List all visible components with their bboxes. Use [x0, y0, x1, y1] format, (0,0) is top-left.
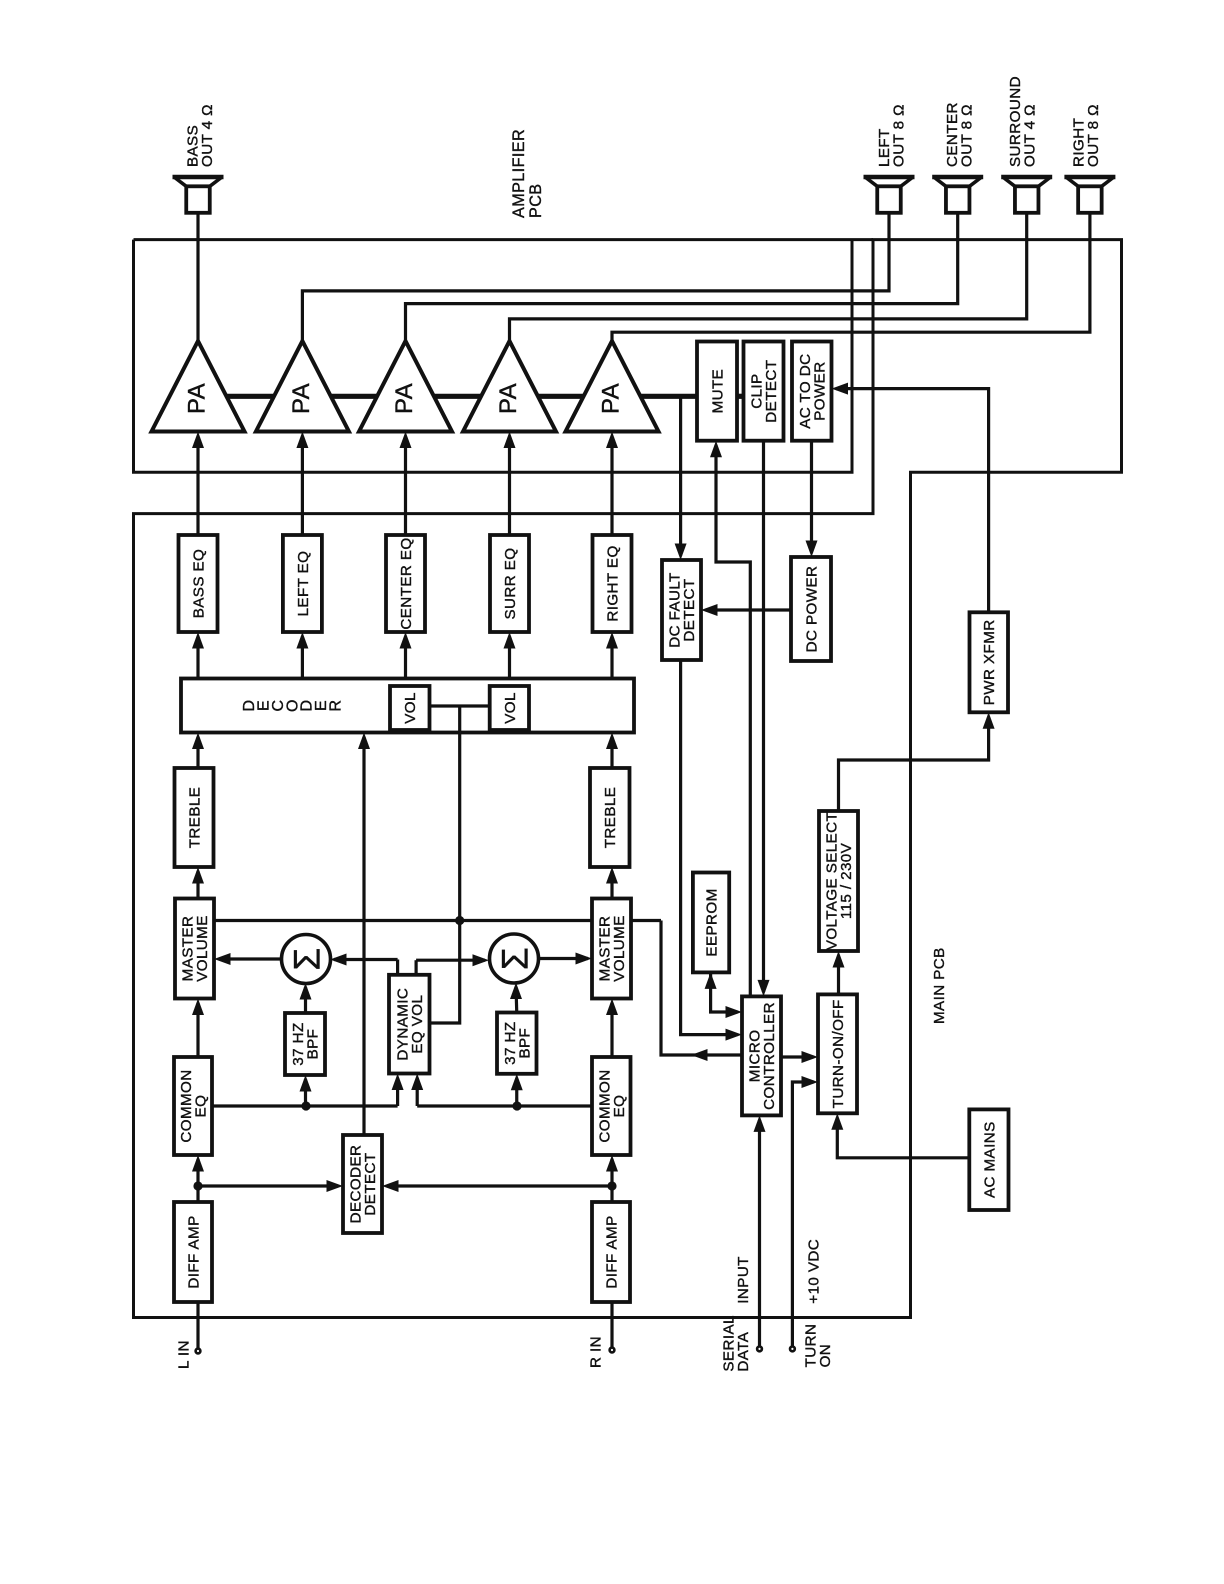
- svg-text:115 / 230V: 115 / 230V: [838, 842, 855, 919]
- wire TURN ON input to TURN-ON/OFF: [792, 1082, 813, 1349]
- block VOL (left): [390, 686, 430, 730]
- wire COMMON EQ output bus (right): [417, 1078, 592, 1106]
- block MICRO CONTROLLER: [742, 996, 781, 1115]
- block DECODER DETECT: [343, 1135, 382, 1233]
- wire PWR XFMR to AC TO DC POWER: [836, 389, 989, 613]
- wire AC TO DC POWER to DC POWER: [810, 441, 813, 553]
- arrow into EQ channel 2: [296, 632, 308, 649]
- svg-text:MUTE: MUTE: [709, 369, 726, 414]
- svg-text:AC MAINS: AC MAINS: [981, 1121, 998, 1198]
- block COMMON EQ (left): [174, 1057, 212, 1155]
- block DECODER: [181, 679, 634, 733]
- wire COMMON EQ output bus (left): [212, 1078, 398, 1106]
- block RIGHT EQ: [593, 535, 632, 632]
- junction left BPF tap: [301, 1101, 310, 1110]
- block DYNAMIC EQ VOL: [389, 975, 430, 1074]
- block DIFF AMP (right): [592, 1202, 630, 1302]
- svg-text:SURR EQ: SURR EQ: [502, 548, 519, 620]
- arrow into PWR XFMR: [983, 712, 995, 729]
- svg-text:PA: PA: [391, 383, 418, 414]
- block 37 HZ BPF (left): [285, 1013, 325, 1075]
- wire PA2 output to LEFT speaker: [302, 213, 889, 341]
- block DC FAULT DETECT: [662, 560, 701, 660]
- svg-text:TREBLE: TREBLE: [186, 787, 203, 848]
- arrow into DECODER from DECODER DETECT: [358, 733, 370, 750]
- wire PA1 output to BASS speaker: [196, 213, 199, 341]
- wire 37HZ BPF to multiplier (right): [514, 987, 518, 1013]
- arrow into MICRO CONTROLLER from CLIP DETECT: [758, 980, 770, 997]
- block LEFT EQ: [283, 535, 322, 632]
- arrow into left multiplier from DYNAMIC EQ VOL: [330, 954, 347, 966]
- arrow into TREBLE right: [606, 867, 618, 884]
- wire MICRO CONTROLLER to TURN-ON/OFF: [781, 1055, 814, 1058]
- arrow into VOLTAGE SELECT: [833, 951, 845, 968]
- wire R IN to DIFF AMP: [610, 1302, 613, 1350]
- op-amp PA4 power amplifier: [463, 341, 556, 432]
- wire CLIP DETECT to MICRO CONTROLLER: [762, 441, 765, 992]
- arrow into DECODER DETECT bottom: [382, 1180, 399, 1192]
- arrow into EQ channel 3: [400, 632, 412, 649]
- svg-text:VOLUME: VOLUME: [194, 915, 211, 982]
- multiplier node (right): [490, 934, 539, 983]
- arrow into MASTER VOLUME left from multiplier: [214, 953, 231, 965]
- speaker BASS: [173, 177, 224, 213]
- arrow into DYNAMIC EQ VOL input 1: [392, 1074, 404, 1091]
- block DIFF AMP (left): [174, 1202, 212, 1302]
- svg-text:DIFF AMP: DIFF AMP: [603, 1215, 620, 1288]
- svg-text:DETECT: DETECT: [681, 578, 698, 641]
- amplifier PCB box: [134, 240, 874, 473]
- svg-text:L IN: L IN: [175, 1340, 192, 1369]
- svg-text:VOLUME: VOLUME: [611, 915, 628, 982]
- svg-text:DATA: DATA: [735, 1331, 752, 1371]
- wire TREBLE to DECODER (left): [196, 737, 199, 768]
- op-amp PA3 power amplifier: [359, 341, 452, 432]
- svg-text:AMPLIFIER: AMPLIFIER: [510, 129, 528, 218]
- svg-text:OUT 8 Ω: OUT 8 Ω: [1085, 104, 1102, 167]
- svg-text:OUT 4 Ω: OUT 4 Ω: [1022, 104, 1039, 167]
- arrow into MASTER VOLUME left: [192, 999, 204, 1016]
- arrow into AC TO DC POWER: [832, 383, 849, 395]
- arrow into PA5: [606, 432, 618, 449]
- arrow into MASTER VOLUME right: [606, 999, 618, 1016]
- wire DIFF AMP to COMMON EQ (left): [196, 1159, 199, 1202]
- svg-text:DC POWER: DC POWER: [803, 566, 820, 653]
- svg-text:OUT 8 Ω: OUT 8 Ω: [890, 104, 907, 167]
- svg-text:R IN: R IN: [587, 1336, 604, 1368]
- terminal L IN: [196, 1349, 201, 1354]
- block 37 HZ BPF (right): [497, 1013, 537, 1074]
- block CENTER EQ: [386, 535, 425, 632]
- junction right BPF tap: [512, 1101, 521, 1110]
- speaker LEFT: [864, 177, 915, 213]
- wire DYNAMIC EQ VOL output to master volume line: [430, 921, 460, 1024]
- wire right input tap to DECODER DETECT: [387, 1184, 612, 1187]
- wire EQ to PA channel 2: [301, 447, 304, 535]
- wire MASTER VOLUME to TREBLE (right): [610, 871, 613, 899]
- block TREBLE (left): [175, 768, 214, 867]
- block AC MAINS: [969, 1109, 1008, 1210]
- svg-text:OUT 4 Ω: OUT 4 Ω: [199, 104, 216, 167]
- block SURR EQ: [490, 535, 529, 632]
- terminal R IN: [610, 1348, 615, 1353]
- wire EQ to PA channel 4: [508, 447, 511, 535]
- arrow into MICRO CONTROLLER from serial data: [754, 1115, 766, 1132]
- arrow into DECODER left channel: [192, 733, 204, 750]
- wire PA5 output to RIGHT speaker: [612, 213, 1090, 341]
- wire PA3 output to CENTER speaker: [406, 213, 958, 341]
- svg-text:+10 VDC: +10 VDC: [805, 1239, 822, 1304]
- wire multiplier to MASTER VOLUME (left): [219, 957, 282, 960]
- arrow into DC FAULT DETECT from speaker bus: [675, 544, 687, 561]
- block VOLTAGE SELECT: [819, 811, 858, 951]
- terminal TURN ON: [790, 1347, 795, 1352]
- arrow into DC FAULT DETECT from DC POWER: [701, 604, 718, 616]
- wire DECODER to EQ channel 4: [508, 637, 511, 679]
- svg-text:R: R: [327, 700, 344, 712]
- arrow into COMMON EQ right: [606, 1155, 618, 1172]
- arrow into EQ channel 5: [606, 632, 618, 649]
- svg-text:PWR XFMR: PWR XFMR: [981, 619, 998, 705]
- speaker CENTER: [932, 177, 983, 213]
- svg-text:TURN-ON/OFF: TURN-ON/OFF: [830, 999, 847, 1108]
- svg-text:Σ: Σ: [495, 947, 536, 970]
- junction right input tap: [607, 1181, 616, 1190]
- svg-text:PA: PA: [183, 383, 210, 414]
- svg-text:CONTROLLER: CONTROLLER: [761, 1002, 778, 1110]
- svg-text:BASS EQ: BASS EQ: [190, 549, 207, 618]
- svg-text:DIFF AMP: DIFF AMP: [185, 1215, 202, 1288]
- wire DIFF AMP to COMMON EQ (right): [610, 1159, 613, 1202]
- wire DECODER to EQ channel 2: [301, 637, 304, 679]
- arrow into TURN-ON/OFF from MICRO CONTROLLER: [802, 1051, 819, 1063]
- svg-text:PCB: PCB: [527, 184, 545, 218]
- arrow into TURN-ON/OFF from turn-on input: [802, 1076, 819, 1088]
- block TURN-ON/OFF: [818, 994, 857, 1113]
- arrow into DC POWER: [806, 541, 818, 558]
- arrow into PA1: [192, 432, 204, 449]
- arrow into MASTER VOLUME right from multiplier: [576, 953, 593, 965]
- svg-text:EEPROM: EEPROM: [703, 888, 720, 956]
- wire AC MAINS to TURN-ON/OFF: [837, 1118, 969, 1158]
- wire MICRO CONTROLLER to master volume line: [661, 921, 742, 1056]
- label CENTER OUT: [944, 102, 976, 167]
- terminal SERIAL DATA: [757, 1347, 762, 1352]
- arrow into PA3: [400, 432, 412, 449]
- arrow into EQ channel 4: [504, 632, 516, 649]
- arrow into DECODER right channel: [606, 733, 618, 750]
- svg-text:LEFT EQ: LEFT EQ: [295, 551, 312, 617]
- junction left input tap: [193, 1181, 202, 1190]
- arrow into DECODER DETECT top: [327, 1180, 344, 1192]
- wire DYNAMIC EQ VOL to left multiplier: [334, 960, 398, 975]
- block PWR XFMR: [970, 612, 1009, 712]
- svg-text:TREBLE: TREBLE: [602, 787, 619, 848]
- label RIGHT OUT: [1070, 104, 1101, 167]
- wire DECODER to EQ channel 5: [610, 637, 613, 679]
- arrow into TREBLE left: [192, 867, 204, 884]
- arrow into TURN-ON/OFF from AC MAINS: [831, 1113, 843, 1130]
- op-amp PA1 power amplifier: [152, 341, 245, 432]
- block CLIP DETECT: [744, 342, 784, 441]
- speaker SURROUND: [1001, 177, 1052, 213]
- multiplier node (left): [282, 935, 331, 984]
- block AC TO DC POWER: [792, 342, 832, 441]
- arrow into MUTE: [710, 441, 722, 458]
- wire MICRO CONTROLLER to MUTE: [716, 445, 750, 996]
- arrow on master volume line: [691, 1049, 708, 1061]
- op-amp PA5 power amplifier: [566, 341, 659, 432]
- wire EQ to PA channel 5: [610, 447, 613, 535]
- label SURROUND OUT: [1007, 76, 1039, 167]
- arrow into right multiplier: [510, 983, 522, 1000]
- wire DYNAMIC EQ VOL to right multiplier: [416, 960, 485, 975]
- junction master volume line: [455, 916, 464, 925]
- arrow into MICRO CONTROLLER from DC FAULT DETECT: [726, 1029, 743, 1041]
- svg-text:Σ: Σ: [287, 947, 328, 970]
- svg-text:PA: PA: [288, 383, 315, 414]
- wire speaker bus tap to DC FAULT DETECT: [679, 396, 682, 555]
- svg-text:PA: PA: [597, 383, 624, 414]
- speaker RIGHT: [1064, 177, 1115, 213]
- arrow into DYNAMIC EQ VOL input 2: [411, 1074, 423, 1091]
- wire COMMON EQ to MASTER VOLUME (left): [196, 1003, 199, 1057]
- wire DECODER to EQ channel 3: [404, 637, 407, 679]
- wire left input tap to DECODER DETECT: [198, 1184, 338, 1187]
- wire TREBLE to DECODER (right): [610, 737, 613, 768]
- wire MUTE to CLIP DETECT link: [737, 394, 744, 399]
- arrow into 37HZ BPF left: [300, 1075, 312, 1092]
- svg-text:POWER: POWER: [811, 361, 828, 420]
- svg-text:MAIN PCB: MAIN PCB: [931, 947, 948, 1024]
- wire master volume control line: [214, 919, 661, 922]
- svg-text:VOL: VOL: [502, 692, 519, 724]
- block DC POWER: [791, 557, 831, 661]
- wire 37HZ BPF to multiplier (left): [304, 987, 307, 1013]
- arrow into PA4: [504, 432, 516, 449]
- wire DC FAULT DETECT to MICRO CONTROLLER: [681, 660, 738, 1035]
- wire SERIAL DATA input to MICRO CONTROLLER: [758, 1120, 761, 1349]
- main PCB outline: [134, 240, 1122, 1318]
- svg-text:RIGHT EQ: RIGHT EQ: [604, 545, 621, 621]
- svg-text:EQ: EQ: [193, 1095, 210, 1118]
- wire L IN to DIFF AMP: [196, 1302, 199, 1351]
- wire EQ to PA channel 3: [404, 447, 407, 535]
- label LEFT OUT: [876, 104, 907, 167]
- wire PA4 output to SURROUND speaker: [510, 213, 1027, 341]
- svg-text:CENTER EQ: CENTER EQ: [398, 537, 415, 629]
- label BASS OUT: [185, 104, 217, 167]
- wire MASTER VOLUME to TREBLE (left): [196, 871, 199, 899]
- svg-text:BPF: BPF: [305, 1029, 322, 1060]
- wire DC POWER to DC FAULT DETECT: [706, 608, 792, 611]
- label AMPLIFIER PCB: [510, 129, 545, 218]
- block MASTER VOLUME (right): [592, 899, 631, 999]
- wire EEPROM to MICRO CONTROLLER: [711, 972, 738, 1012]
- arrow into PA2: [296, 432, 308, 449]
- arrow into EEPROM: [705, 972, 717, 989]
- block VOL (right): [490, 686, 529, 730]
- block EEPROM: [693, 873, 729, 973]
- wire multiplier to MASTER VOLUME (right): [539, 957, 588, 960]
- arrow into right multiplier from DYNAMIC EQ VOL: [473, 954, 490, 966]
- wire VOLTAGE SELECT to PWR XFMR: [839, 717, 989, 811]
- svg-text:INPUT: INPUT: [735, 1256, 752, 1304]
- svg-text:OUT 8 Ω: OUT 8 Ω: [959, 104, 976, 167]
- arrow into MICRO CONTROLLER from EEPROM: [726, 1006, 743, 1018]
- svg-text:BPF: BPF: [516, 1028, 533, 1059]
- label SERIAL DATA: [720, 1315, 752, 1371]
- block MASTER VOLUME (left): [175, 899, 214, 999]
- arrow into EQ channel 1: [192, 632, 204, 649]
- wire EQ to PA channel 1: [196, 447, 199, 535]
- wire speaker thick bus: [198, 394, 697, 399]
- svg-text:EQ VOL: EQ VOL: [409, 995, 426, 1054]
- wire COMMON EQ to MASTER VOLUME (right): [610, 1003, 613, 1057]
- wire VOL to VOL link with master volume tap: [430, 706, 490, 921]
- op-amp PA2 power amplifier: [256, 341, 349, 432]
- label TURN ON: [803, 1324, 834, 1368]
- block MUTE: [697, 342, 737, 441]
- block BASS EQ: [179, 535, 218, 632]
- svg-text:EQ: EQ: [611, 1095, 628, 1118]
- arrow into 37HZ BPF right: [511, 1074, 523, 1091]
- wire DECODER DETECT to DECODER: [362, 737, 365, 1135]
- svg-text:VOL: VOL: [402, 692, 419, 724]
- block TREBLE (right): [590, 768, 630, 867]
- svg-text:DETECT: DETECT: [362, 1152, 379, 1215]
- block COMMON EQ (right): [592, 1057, 631, 1155]
- arrow into left multiplier: [300, 983, 312, 1000]
- svg-text:ON: ON: [817, 1344, 834, 1368]
- arrow into COMMON EQ left: [192, 1155, 204, 1172]
- svg-text:DETECT: DETECT: [763, 360, 780, 423]
- wire TURN-ON/OFF to VOLTAGE SELECT: [837, 956, 840, 995]
- wire DECODER to EQ channel 1: [196, 637, 199, 679]
- svg-text:PA: PA: [495, 383, 522, 414]
